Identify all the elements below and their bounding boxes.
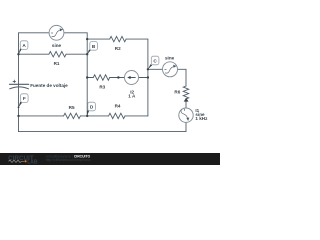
node F box (21, 94, 29, 103)
wire R2 row: B junction to zigzag (87, 38, 110, 40)
battery V3 top plate (10, 83, 29, 85)
wire R1 zigzag to B vertical (66, 53, 87, 55)
node C pole (148, 64, 152, 69)
junction dots (17, 38, 149, 117)
junction I2 right (147, 76, 149, 78)
V2 sine-arrow glyph (164, 67, 174, 73)
svg-text:LAB: LAB (27, 159, 38, 165)
svg-text:R3: R3 (99, 84, 105, 89)
current source I1 circle (179, 108, 193, 122)
wire R3 zigzag to I2 left (110, 77, 125, 79)
resistor R5 (64, 113, 81, 118)
wire R3 junction to zigzag (87, 77, 93, 79)
battery V3 bottom curved plate (10, 87, 29, 89)
svg-text:sine: sine (165, 56, 175, 61)
resistor R3 (93, 75, 109, 80)
wire R6 bottom to I1 top (185, 99, 187, 108)
wire V1 right to corner down to node B vertical (64, 33, 87, 39)
node F attach dot (18, 106, 20, 108)
watermark bar (0, 153, 220, 165)
node D box (88, 102, 96, 111)
node D pole (87, 110, 89, 116)
battery plus sign (13, 80, 16, 83)
resistor R2 (110, 36, 126, 41)
I1 sine-arrow glyph (rotated) (181, 109, 189, 121)
current source I2 circle (125, 71, 139, 85)
svg-text:R5: R5 (69, 105, 75, 110)
node F pole (19, 102, 23, 108)
wire left vertical from corner down to battery (18, 33, 20, 85)
svg-text:R1: R1 (54, 61, 60, 66)
svg-text:Fuente de voltaje: Fuente de voltaje (30, 83, 68, 88)
wire D to R4 (87, 115, 108, 117)
node A pole (19, 49, 22, 55)
I1 direction arrow on wire (up) (184, 98, 189, 102)
I2 arrow glyph pointing left (130, 77, 136, 79)
resistor R1 (49, 52, 66, 57)
wire R1 row: A to zigzag (19, 53, 49, 55)
watermark logo squiggle (9, 160, 25, 162)
watermark logo dot (24, 160, 26, 162)
svg-text:http://circuitlab.com/ceqebanz: http://circuitlab.com/ceqebanz (46, 158, 91, 162)
node B box (90, 42, 98, 51)
wire C to sine V2 (148, 68, 163, 70)
svg-text:1 A: 1 A (128, 94, 136, 99)
junction node D (86, 115, 88, 117)
svg-text:1 kHz: 1 kHz (195, 116, 208, 121)
svg-text:F: F (23, 96, 26, 101)
wire R4 to right vertical (125, 115, 148, 117)
junction at B branch (86, 38, 88, 40)
wire I2 right to vertical (138, 77, 148, 79)
svg-text:R2: R2 (115, 46, 121, 51)
wire battery bottom to bottom outer rail (18, 84, 20, 131)
wire bottom inner rail left junction to R5 (19, 115, 64, 117)
svg-text:R6: R6 (174, 90, 180, 95)
svg-text:R4: R4 (115, 104, 121, 109)
svg-text:sine: sine (52, 43, 62, 48)
junction R3 left (86, 76, 88, 78)
junction R3 right (117, 76, 119, 78)
voltage source V1 circle (49, 25, 64, 40)
node label boxes (20, 41, 159, 111)
node B pole (87, 49, 91, 54)
wire R5 to node D (80, 115, 87, 117)
voltage source V2 circle (163, 62, 178, 77)
node label poles (19, 49, 153, 116)
node A box (20, 41, 28, 50)
wire V2 right corner down to R6 (178, 69, 187, 86)
wire top-left horizontal from left vertical to V1 (19, 32, 50, 34)
resistor R6 vertical (183, 86, 188, 99)
component labels (30, 43, 208, 121)
node letters (22, 43, 157, 109)
junction node A (17, 53, 19, 55)
V1 sine-arrow glyph (51, 30, 61, 36)
source circles (49, 25, 193, 122)
junction bottom left (17, 115, 19, 117)
wire R2 zigzag to right corner, down to C (126, 39, 148, 116)
resistor R4 (109, 113, 125, 118)
junction node C (147, 68, 149, 70)
node C box (151, 56, 159, 65)
junction node B (86, 53, 88, 55)
wire B vertical x=87 (86, 39, 88, 116)
wire bottom outer rail (19, 122, 187, 131)
